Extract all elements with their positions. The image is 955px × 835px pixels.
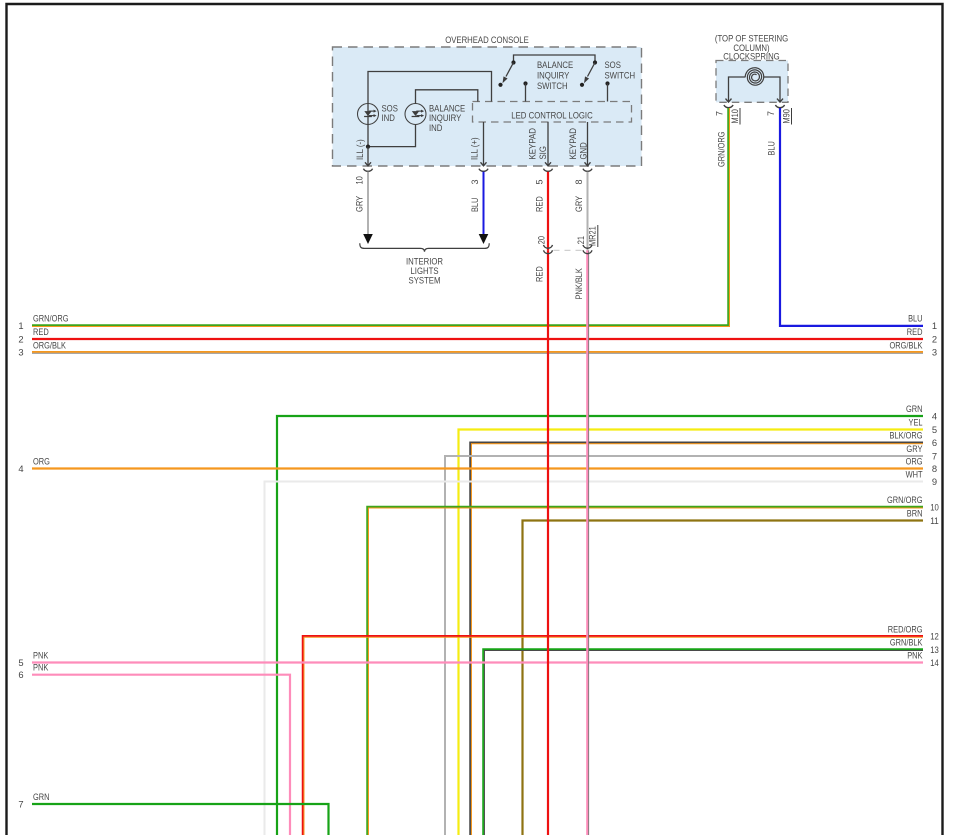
wire YEL row 5 [459,430,924,835]
svg-text:GRY: GRY [906,444,922,454]
svg-text:RED/ORG: RED/ORG [888,624,923,634]
wire BRN row 11 [523,521,924,835]
svg-text:GRN: GRN [33,792,50,802]
svg-text:PNK: PNK [33,663,48,673]
svg-text:BALANCE: BALANCE [537,59,573,70]
wire GRN/ORG row 1 [32,108,729,326]
wire RED keypad sig upper [547,172,549,251]
wire balance LED cathode to ILL(-) node [368,125,416,147]
svg-text:2: 2 [18,333,23,344]
svg-text:ILL (+): ILL (+) [469,137,480,160]
svg-text:RED: RED [33,327,49,337]
svg-text:3: 3 [470,179,480,184]
wire RED row 2 [32,338,923,340]
wire GRN/ORG row 10 [368,508,923,835]
svg-text:ORG: ORG [906,457,923,467]
svg-text:MR21: MR21 [588,226,598,246]
svg-text:RED: RED [535,266,545,282]
svg-text:12: 12 [930,631,939,642]
svg-text:1: 1 [932,320,937,331]
wire KEYPAD GND from logic box to console pin [587,122,589,166]
wire clockspring right lead [764,77,780,102]
wire PNK/BLK keypad gnd lower [588,250,590,835]
svg-text:20: 20 [537,236,547,244]
connector pin 7 M10 [726,99,732,103]
switch S1 output contact [523,81,527,85]
svg-text:7: 7 [932,450,937,461]
svg-text:6: 6 [18,669,23,680]
wire SOS LED anode to logic box [368,72,492,148]
svg-text:GRN: GRN [906,404,923,414]
svg-text:GRY: GRY [355,196,365,212]
svg-text:SYSTEM: SYSTEM [409,275,441,286]
svg-text:5: 5 [932,424,937,435]
wire switch common bus [514,55,596,61]
svg-text:ILL (-): ILL (-) [354,139,365,160]
overhead console box [333,47,642,166]
connector pin 10 at console [365,162,371,166]
svg-text:ORG: ORG [33,457,50,467]
switch S2 output contact [605,81,609,85]
LED D2 BALANCE INQUIRY IND [405,104,426,125]
LED control logic U1 box [473,102,632,123]
wire WHT row 9 [265,482,924,835]
svg-text:RED: RED [535,196,545,212]
svg-text:1: 1 [18,320,23,331]
svg-text:OVERHEAD CONSOLE: OVERHEAD CONSOLE [445,34,529,45]
svg-text:21: 21 [576,236,586,244]
svg-text:SOS: SOS [605,59,621,70]
svg-text:4: 4 [932,410,937,421]
svg-text:PNK: PNK [33,651,48,661]
svg-text:7: 7 [715,111,725,116]
connector pin 8 at console [585,162,591,166]
svg-text:7: 7 [18,798,23,809]
svg-text:11: 11 [930,515,939,526]
svg-text:PNK: PNK [907,651,922,661]
switch S1 balance inquiry blade [511,60,515,64]
connector MR21 dashed link [554,249,583,251]
junction ILL(-) node [366,145,370,149]
svg-text:SWITCH: SWITCH [605,69,636,80]
wire GRY row 7 [445,456,923,835]
wire GRN row 16 [32,804,329,835]
wire ORG/BLK row 3 [32,352,923,354]
clockspring box [716,61,788,103]
brace interior lights system [360,243,489,252]
wire ILL(+) from logic box to console pin [483,122,485,166]
svg-text:ORG/BLK: ORG/BLK [890,340,923,350]
svg-text:BLU: BLU [767,141,777,155]
LED D1 SOS IND [358,104,379,125]
svg-text:3: 3 [932,347,937,358]
svg-text:KEYPAD: KEYPAD [567,128,578,160]
connector MR21 pin 21 [583,245,592,248]
svg-text:10: 10 [355,176,365,184]
wire RED/ORG row 12 [304,637,923,835]
svg-text:GND: GND [578,142,589,159]
svg-text:8: 8 [574,179,584,184]
svg-text:ORG/BLK: ORG/BLK [33,340,66,350]
svg-text:CLOCKSPRING: CLOCKSPRING [723,50,779,61]
svg-text:INQUIRY: INQUIRY [537,69,570,80]
svg-text:2: 2 [932,333,937,344]
svg-text:IND: IND [382,112,396,123]
wire GRY from pin 10 [367,172,369,235]
svg-text:4: 4 [18,463,23,474]
wire BLU from pin 3 [483,172,485,235]
svg-text:IND: IND [429,122,443,133]
connector MR21 pin 20 [544,245,553,248]
svg-text:GRY: GRY [574,196,584,212]
wire GRN/BLK row 13 [484,650,923,835]
switch S2 SOS blade [593,60,597,64]
svg-text:SIG: SIG [537,146,548,159]
svg-text:LED CONTROL LOGIC: LED CONTROL LOGIC [511,110,593,121]
wire ILL(-) to console pin [367,147,369,166]
svg-text:7: 7 [766,111,776,116]
wire KEYPAD SIG from logic box to console pin [547,122,549,166]
wire PNK row 14 [32,661,923,663]
svg-text:14: 14 [930,657,939,668]
svg-text:RED: RED [907,327,923,337]
clockspring coil [745,68,764,86]
svg-text:SWITCH: SWITCH [537,80,568,91]
svg-text:BLU: BLU [470,198,480,212]
wire ORG row 8 [32,467,923,469]
switch S2 contact [580,83,584,87]
svg-text:M90: M90 [781,109,791,123]
svg-text:GRN/ORG: GRN/ORG [717,132,727,168]
svg-text:KEYPAD: KEYPAD [527,128,538,160]
svg-text:8: 8 [932,463,937,474]
svg-text:M10: M10 [730,109,740,123]
wire RED keypad sig lower [547,250,549,835]
svg-text:BLU: BLU [908,314,922,324]
svg-text:BLK/ORG: BLK/ORG [890,431,923,441]
arrow to interior lights left [363,234,373,244]
svg-text:PNK/BLK: PNK/BLK [574,268,584,299]
switch S1 contact [498,83,502,87]
svg-text:10: 10 [930,501,939,512]
svg-text:YEL: YEL [909,418,923,428]
connector pin 5 at console [545,162,551,166]
svg-text:9: 9 [932,476,937,487]
svg-text:GRN/BLK: GRN/BLK [890,638,923,648]
svg-text:GRN/ORG: GRN/ORG [33,314,69,324]
svg-text:3: 3 [18,347,23,358]
svg-text:13: 13 [930,644,939,655]
svg-text:BRN: BRN [907,509,923,519]
svg-text:6: 6 [932,437,937,448]
svg-text:GRN/ORG: GRN/ORG [887,495,923,505]
arrow to interior lights right [479,234,489,244]
connector pin 7 M90 [777,99,783,103]
connector pin 3 at console [481,162,487,166]
wire clockspring left lead [729,77,746,102]
wire GRN row 4 [277,416,923,835]
svg-text:5: 5 [18,657,23,668]
svg-text:WHT: WHT [906,470,923,480]
wire BLK/ORG row 6 [471,444,923,835]
wire GRY keypad gnd upper [587,172,589,251]
svg-text:5: 5 [535,179,545,184]
wire BLU row 1 [780,108,923,326]
wire PNK row 15 [32,675,290,835]
wire balance LED anode to logic box [416,90,478,104]
